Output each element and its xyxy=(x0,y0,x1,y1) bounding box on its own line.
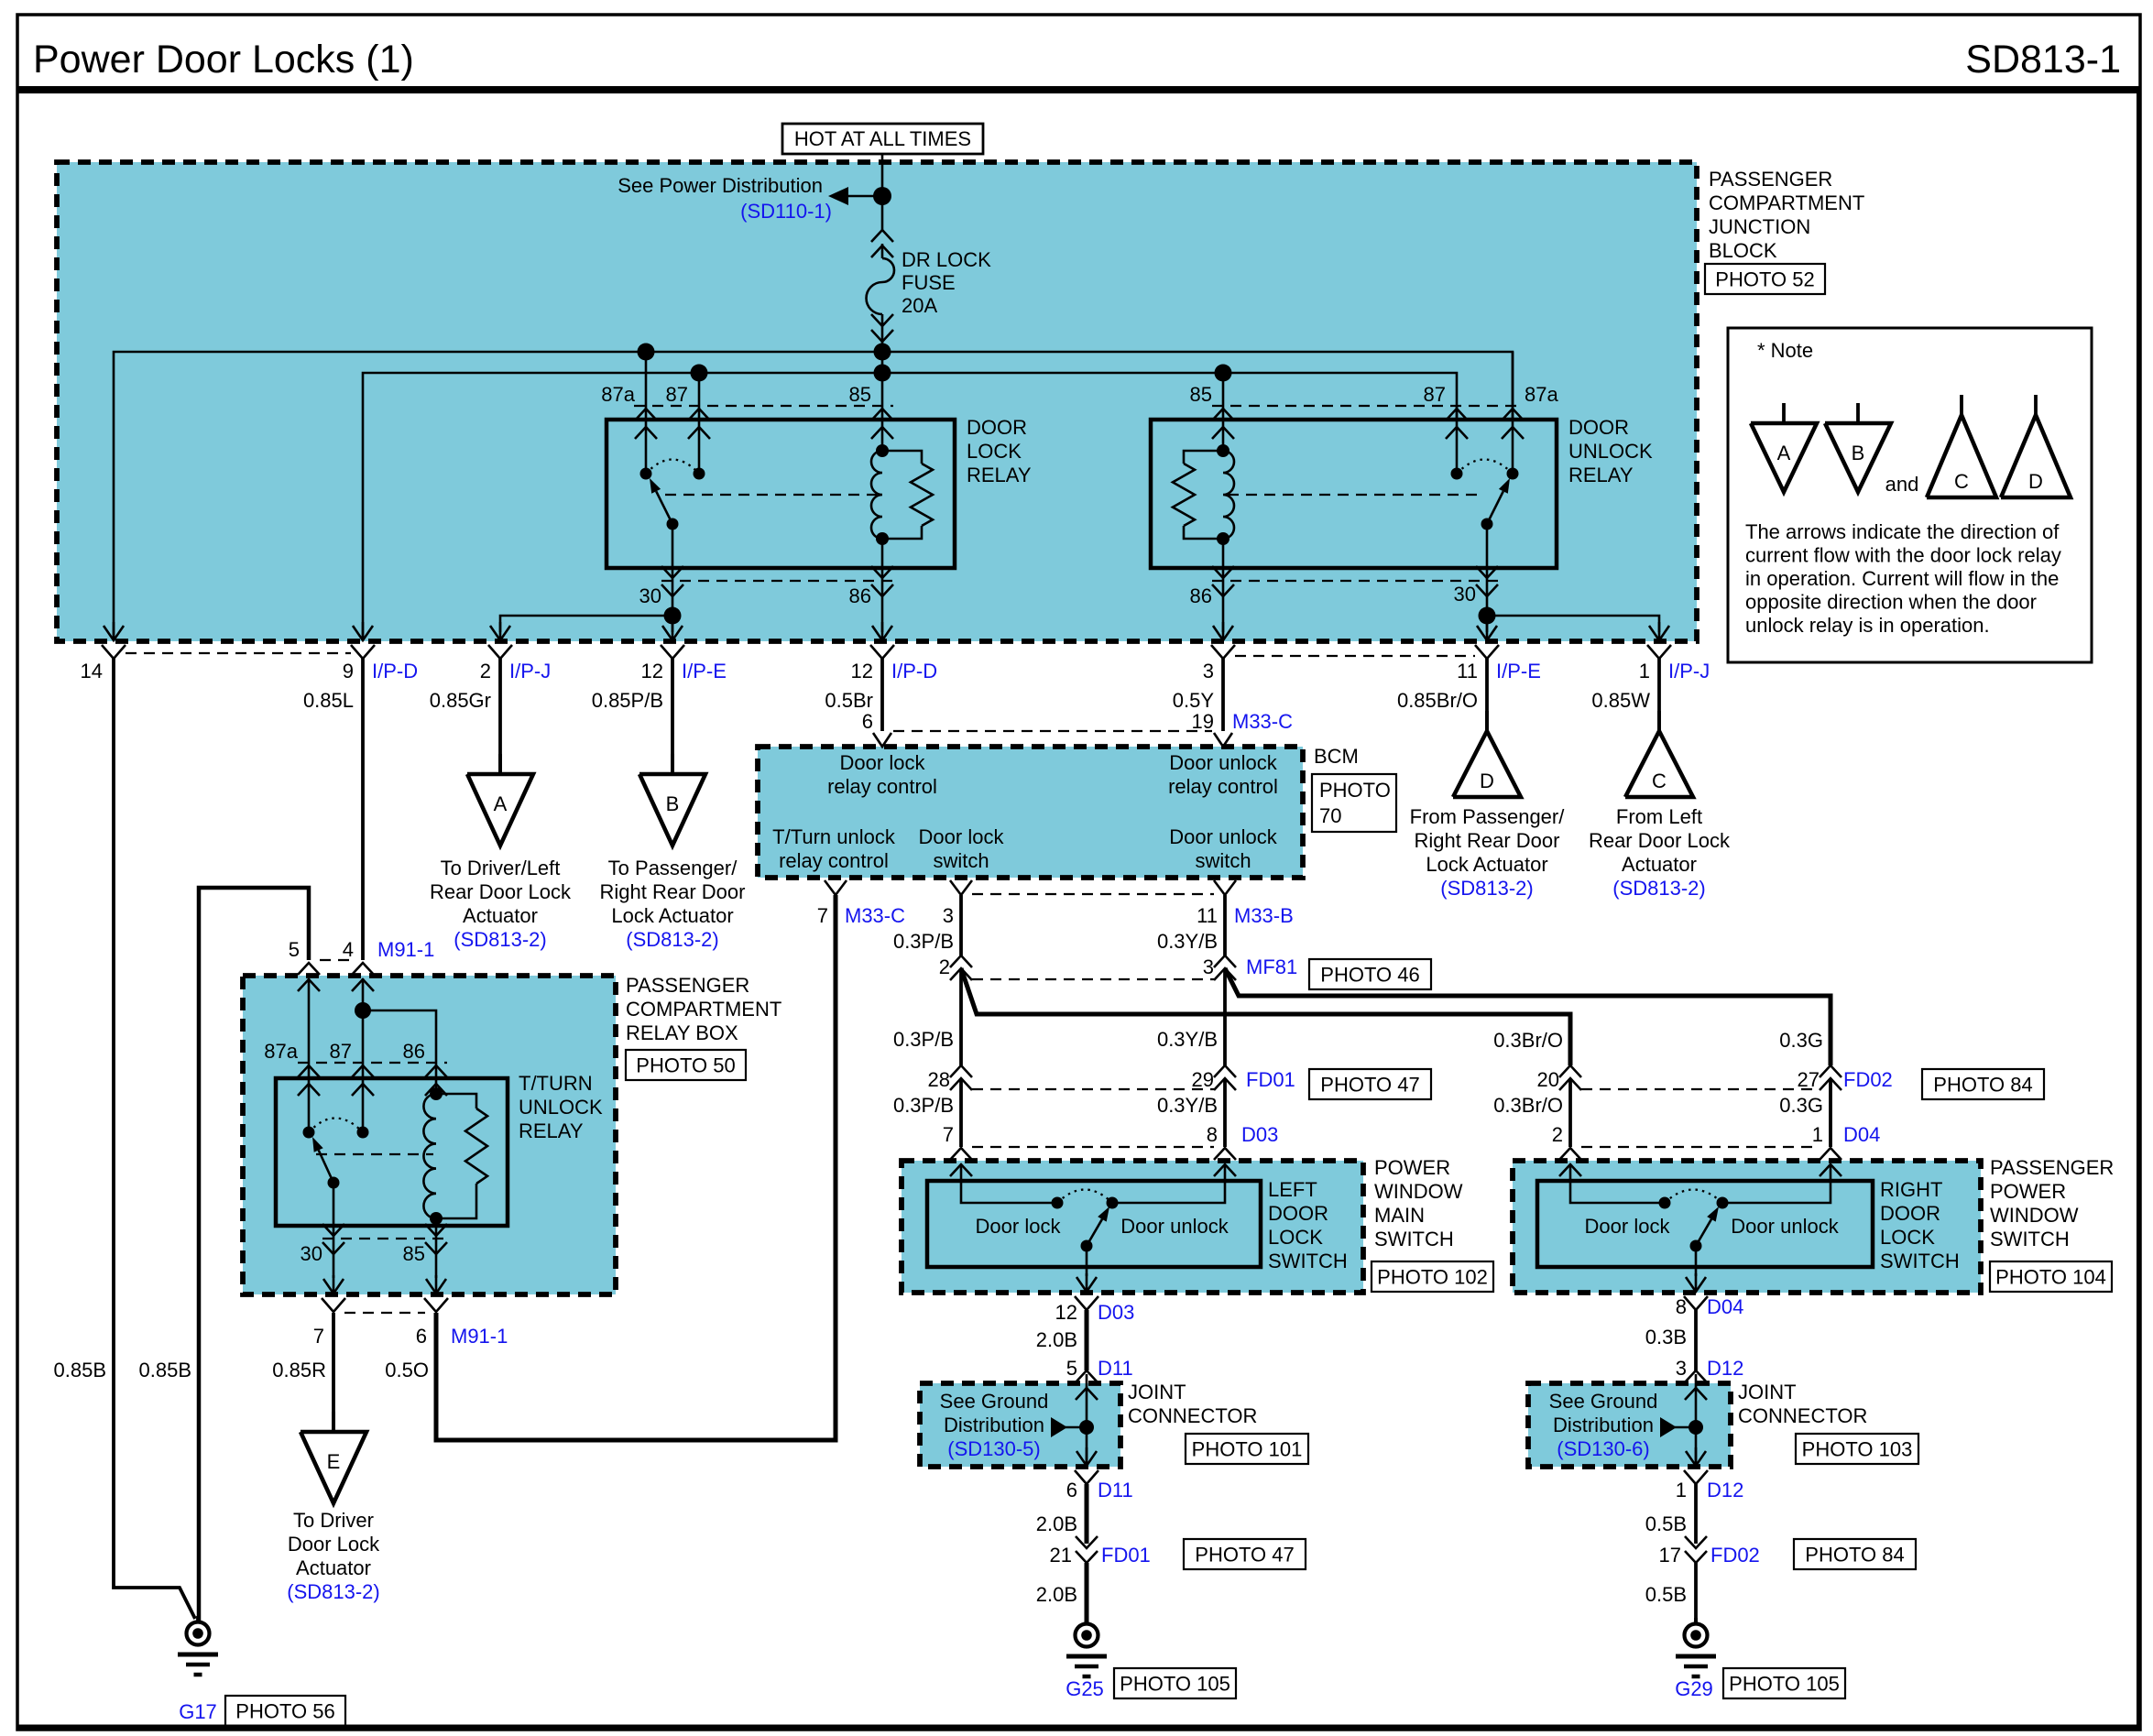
svg-text:From Left: From Left xyxy=(1616,805,1702,828)
svg-text:I/P-D: I/P-D xyxy=(891,660,937,682)
wire 0.85P/B pin12 to triangle B xyxy=(671,658,674,774)
svg-text:(SD813-2): (SD813-2) xyxy=(1440,877,1533,900)
triangle E to driver door lock actuator xyxy=(287,1412,380,1603)
BCM text t/turn unlock relay control xyxy=(772,825,896,872)
svg-text:2: 2 xyxy=(1552,1123,1563,1146)
svg-text:Door Lock: Door Lock xyxy=(288,1533,380,1556)
wire 0.85L pin9 to M91-1 pin4 xyxy=(361,658,365,960)
svg-text:E: E xyxy=(327,1450,341,1473)
note and xyxy=(1885,473,1919,496)
fuse DR LOCK FUSE 20A connector top xyxy=(871,230,893,257)
M33-C pin numbers xyxy=(862,710,1293,733)
node relay30R-branch xyxy=(1479,607,1496,625)
label 0.5B bottom xyxy=(1645,1583,1687,1606)
wire switch to joint connector L xyxy=(1085,1310,1089,1370)
M33-B dashed link xyxy=(972,893,1214,895)
node bus2-85-right xyxy=(1215,365,1232,382)
door unlock relay pin 85 xyxy=(1190,373,1234,451)
svg-text:G17: G17 xyxy=(179,1700,217,1723)
svg-text:B: B xyxy=(666,792,680,815)
svg-text:87: 87 xyxy=(1424,383,1446,406)
svg-text:D12: D12 xyxy=(1707,1357,1743,1380)
svg-text:11: 11 xyxy=(1197,904,1218,927)
svg-text:SWITCH: SWITCH xyxy=(1268,1250,1348,1272)
svg-text:7: 7 xyxy=(943,1123,954,1146)
svg-text:DOOR: DOOR xyxy=(1268,1202,1328,1225)
node pin4 branch xyxy=(355,1002,371,1019)
connector dashed link 3-11 xyxy=(1235,655,1475,657)
wire fuse to bus xyxy=(881,322,884,451)
svg-text:0.3Y/B: 0.3Y/B xyxy=(1157,1094,1218,1117)
junction block exit pin at x=1335 xyxy=(1211,622,1235,659)
svg-text:0.3Br/O: 0.3Br/O xyxy=(1493,1094,1563,1117)
svg-text:6: 6 xyxy=(862,710,873,733)
svg-text:0.5B: 0.5B xyxy=(1645,1583,1687,1606)
t/turn relay top dashed link xyxy=(298,1062,447,1064)
triangle C from left rear door lock actuator xyxy=(1589,711,1731,900)
svg-text:20: 20 xyxy=(1537,1068,1559,1091)
joint connector R text xyxy=(1549,1390,1658,1460)
D04 dashed link xyxy=(1581,1146,1820,1148)
svg-text:0.85L: 0.85L xyxy=(303,689,354,712)
label G25 + PHOTO 105 xyxy=(1066,1668,1236,1700)
note triangle D xyxy=(2001,395,2071,497)
note title xyxy=(1757,339,1813,362)
svg-text:G25: G25 xyxy=(1066,1677,1104,1700)
node joint connector R xyxy=(1689,1420,1703,1435)
BCM text door unlock relay control xyxy=(1168,751,1278,798)
FD02 pin 20 connector xyxy=(1537,1065,1581,1091)
svg-text:0.3P/B: 0.3P/B xyxy=(893,1028,954,1051)
M91-1 pin 6 exit xyxy=(424,1275,448,1312)
label RIGHT DOOR LOCK SWITCH xyxy=(1880,1178,1960,1272)
svg-text:Distribution: Distribution xyxy=(1553,1414,1654,1436)
svg-text:M33-B: M33-B xyxy=(1234,904,1294,927)
wire 0.5Br pin12 to BCM xyxy=(880,658,884,731)
left door lock switch inner box xyxy=(927,1181,1261,1267)
svg-text:M33-C: M33-C xyxy=(1232,710,1293,733)
svg-text:DOOR: DOOR xyxy=(967,416,1027,439)
svg-text:(SD813-2): (SD813-2) xyxy=(1612,877,1705,900)
svg-text:PHOTO 47: PHOTO 47 xyxy=(1195,1544,1294,1567)
svg-text:14: 14 xyxy=(81,660,103,682)
t/turn relay pin 86 xyxy=(403,1040,447,1096)
svg-text:87: 87 xyxy=(330,1040,352,1063)
svg-text:70: 70 xyxy=(1319,804,1341,827)
wire labels 0.85B 0.85B 0.85R 0.5O xyxy=(54,1359,430,1381)
MF81 pin 3 connector xyxy=(1203,955,1236,980)
triangle A to driver/left rear door lock actuator xyxy=(430,754,572,951)
svg-text:MF81: MF81 xyxy=(1246,955,1297,978)
svg-text:85: 85 xyxy=(849,383,871,406)
FD01 pin 21 connector xyxy=(1050,1536,1306,1569)
D04 pin 2 entry xyxy=(1559,1148,1581,1176)
label JOINT CONNECTOR PHOTO 101 xyxy=(1128,1381,1308,1464)
svg-text:3: 3 xyxy=(1676,1357,1687,1380)
joint connector box L (teal) xyxy=(920,1383,1120,1467)
labels 0.3Br/O 0.3G upper xyxy=(1493,1029,1823,1052)
svg-text:* Note: * Note xyxy=(1757,339,1813,362)
labels 0.3P/B 0.3Y/B upper xyxy=(893,930,1218,953)
door lock relay top connector dashed link xyxy=(634,405,893,407)
FD02 pin 17 connector xyxy=(1659,1536,1916,1569)
svg-text:UNLOCK: UNLOCK xyxy=(519,1096,603,1119)
svg-text:CONNECTOR: CONNECTOR xyxy=(1738,1404,1867,1427)
ground G25 xyxy=(1066,1618,1107,1676)
svg-text:9: 9 xyxy=(343,660,354,682)
svg-text:SD813-1: SD813-1 xyxy=(1965,38,2121,82)
title Power Door Locks (1) xyxy=(33,38,414,82)
svg-text:85: 85 xyxy=(1190,383,1212,406)
svg-text:DOOR: DOOR xyxy=(1568,416,1629,439)
svg-text:M33-C: M33-C xyxy=(845,904,905,927)
FD01 dashed link xyxy=(972,1088,1214,1090)
door lock relay pin 30 xyxy=(639,524,683,616)
svg-text:PHOTO 52: PHOTO 52 xyxy=(1715,268,1814,291)
svg-text:86: 86 xyxy=(849,584,871,607)
door lock relay pin 87 xyxy=(666,373,710,474)
D03 pin 8 entry xyxy=(1214,1148,1236,1176)
door lock relay switch contacts xyxy=(640,460,705,480)
junction block exit pin at x=124 xyxy=(102,622,126,659)
passenger compartment junction block (teal box) xyxy=(57,162,1697,641)
svg-text:Door unlock: Door unlock xyxy=(1120,1215,1229,1238)
svg-text:(SD130-5): (SD130-5) xyxy=(947,1437,1040,1460)
relay box label + PHOTO 50 xyxy=(626,974,781,1080)
see power distribution arrow xyxy=(828,187,875,205)
svg-text:T/TURN: T/TURN xyxy=(519,1072,593,1095)
title SD813-1 xyxy=(1965,38,2121,82)
wire 0.85B pin14 to ground xyxy=(114,658,195,1619)
svg-text:0.5Y: 0.5Y xyxy=(1173,689,1215,712)
door lock relay pin 85 xyxy=(849,383,893,439)
svg-text:Rear Door Lock: Rear Door Lock xyxy=(1589,829,1731,852)
svg-text:PHOTO 103: PHOTO 103 xyxy=(1802,1438,1913,1461)
wire 0.85Br/O pin11 to triangle D xyxy=(1485,658,1489,733)
svg-text:opposite direction when the do: opposite direction when the door xyxy=(1745,591,2037,614)
svg-text:0.85B: 0.85B xyxy=(54,1359,107,1381)
svg-text:I/P-J: I/P-J xyxy=(509,660,551,682)
labels 12 D03 2.0B 5 D11 xyxy=(1036,1301,1135,1380)
svg-text:Right Rear Door: Right Rear Door xyxy=(1415,829,1560,852)
door lock relay armature dashed link xyxy=(665,494,877,496)
svg-text:BLOCK: BLOCK xyxy=(1709,239,1777,262)
wire 30R down xyxy=(1486,616,1489,632)
svg-text:POWER: POWER xyxy=(1990,1180,2066,1203)
svg-text:PHOTO 46: PHOTO 46 xyxy=(1320,964,1419,987)
svg-text:LOCK: LOCK xyxy=(1268,1226,1323,1249)
MF81 dashed link xyxy=(972,978,1214,980)
note triangle C xyxy=(1927,395,1996,497)
svg-text:PASSENGER: PASSENGER xyxy=(1709,168,1832,191)
svg-text:(SD130-6): (SD130-6) xyxy=(1557,1437,1649,1460)
svg-text:Actuator: Actuator xyxy=(296,1556,371,1579)
D12 pin 3 entry xyxy=(1685,1370,1707,1400)
svg-text:RIGHT: RIGHT xyxy=(1880,1178,1942,1201)
wire switch to joint connector R xyxy=(1694,1310,1698,1370)
svg-text:in operation. Current will flo: in operation. Current will flow in the xyxy=(1745,567,2059,590)
svg-text:PHOTO 47: PHOTO 47 xyxy=(1320,1074,1419,1097)
ground G17 xyxy=(178,1616,218,1675)
joint connector R internal wire xyxy=(1695,1374,1698,1467)
wire FD02-27 to D04-1 xyxy=(1829,1078,1832,1147)
node power junction xyxy=(873,187,891,205)
node bus1-main xyxy=(874,344,891,361)
svg-text:The arrows indicate the direct: The arrows indicate the direction of xyxy=(1745,520,2060,543)
svg-text:7: 7 xyxy=(817,904,828,927)
junction block exit pin at x=1811 xyxy=(1647,622,1671,659)
svg-text:FD01: FD01 xyxy=(1246,1068,1295,1091)
label G17 + PHOTO 56 xyxy=(179,1696,345,1726)
t/turn relay bottom dashed link xyxy=(322,1238,447,1239)
FD02 pin 27 connector xyxy=(1798,1065,1842,1091)
svg-text:19: 19 xyxy=(1192,710,1214,733)
svg-text:D04: D04 xyxy=(1707,1295,1743,1318)
door unlock relay coil xyxy=(1173,444,1234,545)
door unlock relay armature dashed link xyxy=(1228,494,1481,496)
svg-text:SWITCH: SWITCH xyxy=(1990,1228,2070,1250)
fuse connector bottom xyxy=(871,314,893,342)
label LEFT DOOR LOCK SWITCH xyxy=(1268,1178,1348,1272)
BCM pin 6 entry xyxy=(873,733,891,747)
junction block exit pin at x=396 xyxy=(351,622,375,659)
svg-text:Door unlock: Door unlock xyxy=(1731,1215,1839,1238)
svg-text:5: 5 xyxy=(1066,1357,1077,1380)
wire gauge labels row xyxy=(303,689,1650,712)
svg-text:relay control: relay control xyxy=(1168,775,1278,798)
door unlock relay label xyxy=(1568,416,1653,486)
svg-text:(SD110-1): (SD110-1) xyxy=(740,200,832,223)
D03 pin 7 entry xyxy=(950,1148,972,1176)
junction block exit pin at x=1623 xyxy=(1475,622,1499,659)
junction block exit pin at x=963 xyxy=(870,622,894,659)
label POWER WINDOW MAIN SWITCH + PHOTO 102 xyxy=(1372,1156,1493,1292)
svg-text:0.85W: 0.85W xyxy=(1591,689,1650,712)
door unlock relay pin 87a xyxy=(1502,352,1558,474)
pin labels row I/P xyxy=(81,660,1710,682)
left switch exit D03-12 xyxy=(1075,1273,1098,1310)
svg-text:C: C xyxy=(1652,770,1667,792)
wire BCM3 to MF81 pin2 xyxy=(959,895,963,955)
door lock relay pin 87a xyxy=(601,352,657,474)
labels 1 D12 0.5B xyxy=(1645,1479,1744,1535)
M33-C dashed link at BCM top xyxy=(893,730,1212,732)
svg-text:0.3G: 0.3G xyxy=(1779,1029,1823,1052)
svg-text:JUNCTION: JUNCTION xyxy=(1709,215,1810,238)
svg-text:MAIN: MAIN xyxy=(1374,1204,1425,1227)
svg-text:(SD813-2): (SD813-2) xyxy=(287,1580,379,1603)
svg-text:and: and xyxy=(1885,473,1919,496)
joint connector L arrow xyxy=(1051,1417,1081,1437)
svg-text:0.85B: 0.85B xyxy=(139,1359,192,1381)
BCM label xyxy=(1312,745,1396,832)
svg-text:switch: switch xyxy=(933,849,989,872)
svg-text:3: 3 xyxy=(943,904,954,927)
svg-text:D11: D11 xyxy=(1098,1357,1133,1380)
svg-text:PHOTO 84: PHOTO 84 xyxy=(1805,1544,1904,1567)
door lock relay K1 box xyxy=(607,420,955,568)
svg-text:Lock Actuator: Lock Actuator xyxy=(1426,853,1547,876)
node bus2-main xyxy=(874,365,891,382)
svg-text:To Driver: To Driver xyxy=(293,1509,374,1532)
t/turn relay pin 30 xyxy=(301,1183,344,1278)
wire 0.85W pin1 to triangle C xyxy=(1657,658,1661,733)
t/turn relay switch lever xyxy=(312,1137,340,1189)
svg-text:0.85P/B: 0.85P/B xyxy=(592,689,663,712)
wire 30 branch to pin2 xyxy=(500,616,672,632)
svg-text:3: 3 xyxy=(1203,660,1214,682)
svg-text:87a: 87a xyxy=(601,383,635,406)
wire joint L to FD01-21 xyxy=(1085,1484,1089,1544)
svg-text:Door lock: Door lock xyxy=(1585,1215,1671,1238)
junction block exit pin at x=734 xyxy=(661,622,684,659)
label 2.0B bottom xyxy=(1036,1583,1077,1606)
svg-text:0.3P/B: 0.3P/B xyxy=(893,1094,954,1117)
svg-text:Actuator: Actuator xyxy=(463,904,538,927)
label See Power Distribution (SD110-1) xyxy=(617,174,832,223)
triangle B to passenger/right rear door lock actuator xyxy=(600,754,746,951)
svg-text:0.5O: 0.5O xyxy=(385,1359,429,1381)
svg-text:I/P-D: I/P-D xyxy=(372,660,418,682)
svg-text:BCM: BCM xyxy=(1314,745,1359,768)
svg-text:T/Turn unlock: T/Turn unlock xyxy=(772,825,896,848)
svg-text:20A: 20A xyxy=(902,294,937,317)
svg-text:2.0B: 2.0B xyxy=(1036,1512,1077,1535)
note triangle B xyxy=(1825,403,1891,492)
M91-1 bottom labels xyxy=(313,1325,508,1348)
svg-text:3: 3 xyxy=(1203,955,1214,978)
wire MF81-2 down to FD01-28 xyxy=(959,968,963,1065)
svg-text:RELAY BOX: RELAY BOX xyxy=(626,1021,738,1044)
fuse DR LOCK FUSE 20A body xyxy=(867,244,895,325)
wire bus1 (85 feed rail) xyxy=(114,352,1513,640)
labels 0.3P/B 0.3Y/B lower xyxy=(893,1094,1218,1117)
svg-text:A: A xyxy=(494,792,508,815)
svg-text:CONNECTOR: CONNECTOR xyxy=(1128,1404,1257,1427)
svg-text:FUSE: FUSE xyxy=(902,271,956,294)
wire BCM11 to MF81 pin3 xyxy=(1223,895,1227,955)
t/turn relay pin 85 xyxy=(403,1218,447,1278)
svg-text:12: 12 xyxy=(851,660,873,682)
wire joint R to FD02-17 xyxy=(1694,1484,1698,1544)
M91-1 pin 7 exit xyxy=(322,1275,345,1312)
svg-text:PHOTO 102: PHOTO 102 xyxy=(1377,1266,1488,1289)
wire bus2 (87 rail) xyxy=(363,373,1457,640)
svg-text:7: 7 xyxy=(313,1325,324,1348)
svg-text:current flow with the door loc: current flow with the door lock relay xyxy=(1745,544,2061,567)
svg-text:1: 1 xyxy=(1812,1123,1823,1146)
BCM pin labels xyxy=(817,904,1294,927)
labels 8 D04 0.3B 3 D12 xyxy=(1645,1295,1744,1380)
right switch labels door lock / door unlock xyxy=(1585,1215,1840,1238)
MF81 pin 2 connector xyxy=(939,955,972,980)
t/turn unlock relay label xyxy=(519,1072,603,1142)
right switch lever xyxy=(1690,1206,1720,1252)
svg-text:87a: 87a xyxy=(264,1040,298,1063)
svg-text:5: 5 xyxy=(289,938,300,961)
svg-text:1: 1 xyxy=(1639,660,1650,682)
svg-text:LOCK: LOCK xyxy=(1880,1226,1935,1249)
svg-text:0.85Br/O: 0.85Br/O xyxy=(1397,689,1478,712)
svg-text:D03: D03 xyxy=(1098,1301,1134,1324)
label FD02 + PHOTO 84 xyxy=(1843,1068,2044,1099)
wire MF81-3 down to FD01-29 xyxy=(1223,968,1227,1065)
wire 0.5O loop M91-1 pin6 to BCM pin7 xyxy=(436,895,836,1440)
left switch wire out xyxy=(1086,1246,1088,1276)
left switch lever xyxy=(1081,1206,1110,1252)
door unlock relay switch lever xyxy=(1481,478,1511,530)
svg-text:D03: D03 xyxy=(1241,1123,1278,1146)
svg-text:8: 8 xyxy=(1207,1123,1218,1146)
D04 pin labels xyxy=(1552,1123,1881,1146)
svg-text:0.5B: 0.5B xyxy=(1645,1512,1687,1535)
svg-text:0.3P/B: 0.3P/B xyxy=(893,930,954,953)
svg-text:Door lock: Door lock xyxy=(976,1215,1062,1238)
svg-text:0.85R: 0.85R xyxy=(272,1359,326,1381)
svg-text:I/P-J: I/P-J xyxy=(1668,660,1710,682)
node bus2-87-left xyxy=(691,365,708,382)
node bus1-87a-left xyxy=(638,344,655,361)
svg-text:2: 2 xyxy=(939,955,950,978)
M91-1 dashed link pins 5-4 xyxy=(320,959,352,961)
power window main switch box (teal) xyxy=(902,1161,1363,1293)
svg-text:LOCK: LOCK xyxy=(967,440,1022,463)
svg-text:30: 30 xyxy=(639,584,661,607)
svg-text:To Driver/Left: To Driver/Left xyxy=(441,857,561,879)
wire FD01-21 to G25 xyxy=(1085,1563,1089,1623)
wire FD02-17 to G29 xyxy=(1694,1563,1698,1623)
wire pin4 to relay 87 xyxy=(362,978,365,1132)
svg-text:30: 30 xyxy=(301,1242,322,1265)
svg-text:0.3Br/O: 0.3Br/O xyxy=(1493,1029,1563,1052)
wire MF81-3 thick run to FD02-27 xyxy=(1225,968,1831,1065)
M91-1 pin 4 entry xyxy=(352,963,374,991)
svg-text:B: B xyxy=(1852,442,1865,464)
wire 0.5Y pin3 to BCM xyxy=(1221,658,1225,731)
label PASSENGER POWER WINDOW SWITCH + PHOTO 104 xyxy=(1990,1156,2114,1292)
door lock relay switch lever xyxy=(650,478,679,530)
svg-text:D: D xyxy=(1480,770,1494,792)
joint connector L internal wire xyxy=(1086,1374,1088,1467)
svg-text:21: 21 xyxy=(1050,1544,1072,1567)
joint connector R arrow xyxy=(1660,1417,1690,1437)
door unlock relay pin 86 xyxy=(1190,539,1234,632)
svg-text:Door lock: Door lock xyxy=(919,825,1005,848)
wire MF81-2 thick run to FD02-20 xyxy=(961,968,1570,1065)
svg-text:2.0B: 2.0B xyxy=(1036,1328,1077,1351)
svg-text:PHOTO 105: PHOTO 105 xyxy=(1729,1673,1840,1696)
svg-text:11: 11 xyxy=(1457,660,1478,682)
door unlock relay top connector dashed link xyxy=(1212,405,1524,407)
label JOINT CONNECTOR PHOTO 103 xyxy=(1738,1381,1918,1464)
door lock relay coil xyxy=(871,444,933,545)
door lock relay label xyxy=(967,416,1032,486)
svg-text:PASSENGER: PASSENGER xyxy=(1990,1156,2114,1179)
t/turn relay coil xyxy=(423,1087,487,1225)
svg-text:0.3G: 0.3G xyxy=(1779,1094,1823,1117)
svg-text:Door unlock: Door unlock xyxy=(1169,825,1277,848)
svg-text:RELAY: RELAY xyxy=(519,1119,584,1142)
passenger power window switch box (teal) xyxy=(1513,1161,1981,1293)
svg-text:D: D xyxy=(2028,470,2043,493)
wire 0.85R pin7 to triangle E xyxy=(332,1313,335,1432)
svg-text:UNLOCK: UNLOCK xyxy=(1568,440,1653,463)
svg-text:G29: G29 xyxy=(1675,1677,1713,1700)
door unlock relay pin 30 xyxy=(1454,524,1498,616)
svg-text:RELAY: RELAY xyxy=(1568,464,1634,486)
svg-text:FD01: FD01 xyxy=(1101,1544,1151,1567)
svg-text:D12: D12 xyxy=(1707,1479,1743,1501)
